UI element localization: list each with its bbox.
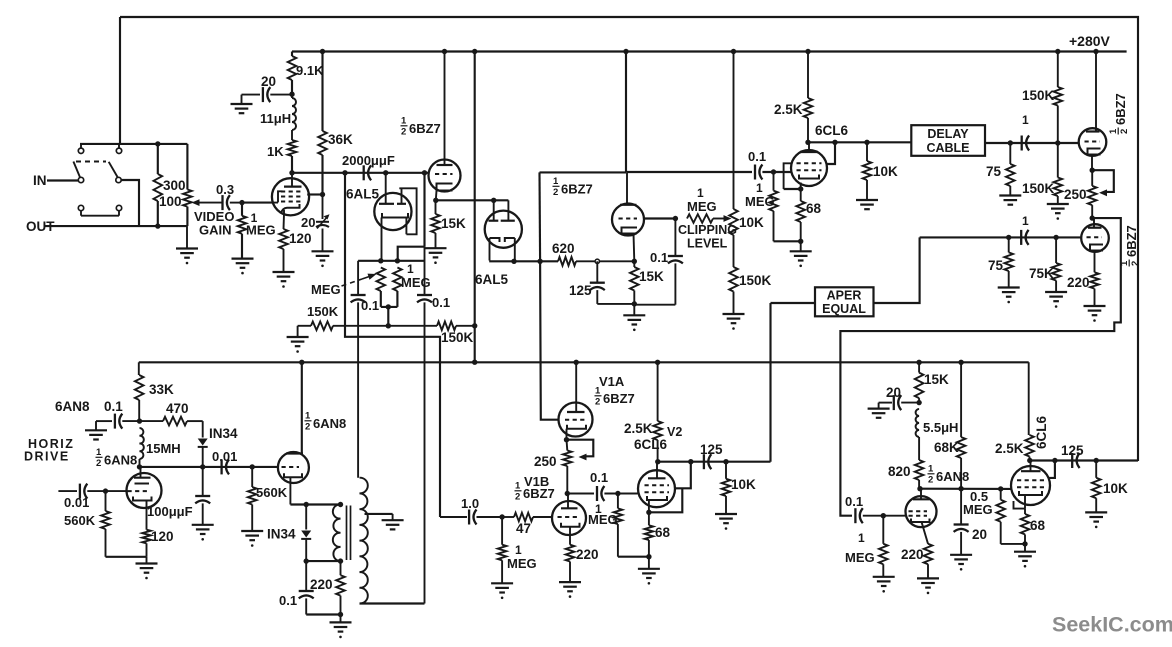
resistor 560K second — [241, 467, 263, 547]
switch S1 contacts — [78, 144, 121, 211]
node 6CL6 screen — [832, 140, 837, 145]
capacitor 0.1 fourth — [755, 165, 762, 180]
resistor 75K — [1045, 237, 1067, 307]
tube V 6BZ7b clipper — [612, 172, 644, 261]
resistor 300 — [154, 144, 163, 226]
svg-text:6CL6: 6CL6 — [815, 123, 849, 138]
resistor 0.5 MEG — [996, 489, 1025, 544]
svg-text:470: 470 — [166, 401, 189, 416]
capacitor 0.1 third — [634, 219, 683, 305]
svg-text:2.5K: 2.5K — [774, 102, 803, 117]
svg-text:2: 2 — [553, 187, 558, 198]
svg-text:6BZ7: 6BZ7 — [1113, 93, 1128, 125]
wire aper right — [874, 237, 920, 303]
node rail junction — [731, 49, 736, 54]
node 47 left — [499, 514, 504, 519]
tube V 6AN8 third — [906, 489, 937, 544]
node 6CL6b screen — [1052, 458, 1057, 463]
wire clipper grid — [644, 217, 675, 219]
svg-text:0.01: 0.01 — [64, 495, 89, 510]
node 6BZ7a cathode — [433, 198, 438, 203]
wire 6BZ7a cathode out — [436, 199, 509, 201]
diode 1N34 first — [198, 421, 208, 467]
wire v1a grid feed2 — [540, 261, 559, 419]
svg-text:0.1: 0.1 — [361, 298, 379, 313]
wire V2 screen — [675, 462, 691, 489]
wire 6AL5 right route — [398, 173, 425, 261]
wire rail drop 626 — [625, 52, 627, 173]
node rail junction — [1055, 49, 1060, 54]
node 20 tap — [916, 400, 921, 405]
wire top feedback line — [120, 17, 1138, 461]
node diode junction — [200, 464, 205, 469]
svg-text:6AN8: 6AN8 — [104, 453, 137, 468]
svg-text:250: 250 — [1064, 187, 1087, 202]
svg-text:15MH: 15MH — [146, 441, 181, 456]
resistor 1 MEG V2 — [614, 494, 623, 557]
node 6CL6 plate — [805, 140, 810, 145]
node rail junction — [805, 49, 810, 54]
svg-text:1: 1 — [1108, 128, 1119, 134]
wire +280V supply rail — [292, 50, 1127, 52]
svg-text:SeekIC.com: SeekIC.com — [1052, 613, 1172, 637]
wire grid tube1 — [307, 193, 322, 195]
svg-text:MEG: MEG — [745, 194, 775, 209]
resistor 220 xfmr — [336, 561, 345, 614]
node 75b tap — [1006, 235, 1011, 240]
potentiometer 250 V1A — [563, 440, 572, 494]
svg-text:MEG: MEG — [845, 550, 875, 565]
node xfmr gnd — [338, 612, 343, 617]
svg-text:2000μμF: 2000μμF — [342, 153, 395, 168]
wire cath tie — [784, 188, 801, 190]
svg-text:15K: 15K — [924, 372, 949, 387]
resistor 1 MEG second — [393, 268, 402, 292]
ground V2 cath — [638, 557, 660, 585]
resistor 120 second — [142, 530, 151, 557]
resistor 10K V2 — [715, 462, 737, 530]
svg-text:5.5μH: 5.5μH — [923, 420, 958, 435]
pot 250 V1A wiper — [567, 440, 594, 461]
capacitor 0.1 horiz — [85, 414, 139, 440]
svg-text:10K: 10K — [1103, 481, 1128, 496]
node 68K bottom — [958, 486, 963, 491]
resistor 9.1K — [288, 52, 297, 95]
svg-text:75: 75 — [988, 258, 1004, 273]
svg-text:APER: APER — [827, 289, 862, 303]
node rail junction — [320, 49, 325, 54]
svg-text:1: 1 — [756, 181, 763, 195]
node 150K mid tap — [1055, 140, 1060, 145]
svg-text:10K: 10K — [739, 215, 764, 230]
svg-text:2: 2 — [1130, 261, 1141, 266]
wire clip to cap — [627, 171, 752, 173]
tube V 6AN8 first — [127, 467, 162, 530]
ground 1 MEG input — [232, 259, 254, 275]
svg-text:V1A: V1A — [599, 374, 625, 389]
resistor 120 tube1 — [273, 214, 295, 288]
node 6AL5 plate2 — [422, 170, 427, 175]
node 6AN8 grid node — [137, 464, 142, 469]
svg-text:2: 2 — [401, 127, 406, 138]
node V1B plate — [565, 491, 570, 496]
resistor MEG sixth — [873, 516, 895, 593]
node 9.1K junction — [289, 92, 294, 97]
svg-text:68K: 68K — [934, 440, 959, 455]
diode 1N34 second — [301, 505, 311, 562]
box DELAY CABLE — [911, 125, 985, 156]
svg-text:LEVEL: LEVEL — [687, 237, 728, 251]
svg-text:6AL5: 6AL5 — [475, 272, 509, 287]
capacitor 125 first — [590, 261, 635, 304]
svg-text:MEG: MEG — [311, 282, 341, 297]
node rail junction — [1093, 49, 1098, 54]
svg-text:300: 300 — [163, 178, 186, 193]
svg-text:68: 68 — [1030, 518, 1046, 533]
node 6BZ7d plate — [1090, 215, 1095, 220]
capacitor 100uuF — [192, 467, 214, 541]
resistor 1 MEG input — [238, 203, 247, 259]
resistor 1 MEG V1B — [491, 517, 513, 599]
svg-text:1: 1 — [407, 262, 414, 276]
resistor 10K first — [856, 142, 878, 209]
svg-text:10K: 10K — [731, 477, 756, 492]
node 6AL5b plate — [491, 198, 496, 203]
wire 6CL6b out — [1030, 459, 1138, 461]
resistor 220 second — [917, 522, 939, 594]
tube V 6AL5 second — [485, 200, 522, 260]
node 150K bus1 — [386, 323, 391, 328]
capacitor 1 lower — [1021, 230, 1028, 245]
node switch top — [155, 141, 160, 146]
resistor 75 second — [998, 237, 1020, 303]
node 2000 left — [342, 170, 347, 175]
svg-text:0.1: 0.1 — [104, 399, 123, 414]
resistor 150K gnd-a — [287, 322, 437, 353]
wire cath to xfmr — [290, 503, 340, 505]
node 10K4 tap — [723, 459, 728, 464]
node 6CL6 grid — [771, 169, 776, 174]
svg-text:33K: 33K — [149, 382, 174, 397]
capacitor 20 screen — [231, 87, 293, 113]
wire meg to 68 — [774, 240, 801, 242]
svg-text:2.5K: 2.5K — [995, 441, 1024, 456]
wire aper left — [771, 302, 816, 304]
resistor 15K second — [630, 261, 639, 304]
node 15K bottom — [632, 301, 637, 306]
svg-text:15K: 15K — [639, 269, 664, 284]
svg-text:0.1: 0.1 — [650, 250, 668, 265]
capacitor 0.1 V2 — [567, 486, 638, 501]
svg-text:6AN8: 6AN8 — [55, 399, 90, 414]
svg-text:2: 2 — [305, 422, 310, 433]
node diode2 bot — [304, 558, 309, 563]
node xfmr pri top — [338, 502, 343, 507]
ground 68 first — [790, 241, 812, 267]
wire 6CL6 screen — [827, 142, 835, 164]
node 620 left — [511, 259, 516, 264]
capacitor 0.01 b — [222, 459, 229, 474]
capacitor 0.3 — [223, 195, 243, 210]
node V2 screen — [688, 459, 693, 464]
node rail junction — [442, 49, 447, 54]
svg-text:75K: 75K — [1029, 266, 1054, 281]
pot 250 wiper — [1092, 170, 1114, 196]
svg-text:GAIN: GAIN — [199, 223, 232, 238]
svg-text:0.1: 0.1 — [590, 470, 608, 485]
node rail junction — [472, 49, 477, 54]
tube V 6AN8 second — [278, 452, 309, 505]
wire cap to grid — [762, 171, 791, 173]
svg-text:68: 68 — [806, 201, 822, 216]
node 125 tap — [595, 259, 599, 263]
svg-text:560K: 560K — [256, 485, 288, 500]
resistor 10K third — [1085, 461, 1107, 529]
svg-text:75: 75 — [986, 164, 1002, 179]
svg-text:6AN8: 6AN8 — [313, 416, 346, 431]
resistor 15K first — [425, 200, 447, 264]
resistor 150K clip — [723, 267, 745, 330]
resistor 470 — [140, 417, 203, 426]
capacitor 20 third — [868, 395, 920, 418]
resistor 75 first — [999, 143, 1021, 205]
resistor 150K upper — [1054, 52, 1063, 144]
svg-text:100μμF: 100μμF — [147, 504, 193, 519]
svg-text:1: 1 — [515, 481, 521, 492]
svg-text:2: 2 — [1119, 129, 1130, 134]
node bus 15K3 — [916, 360, 921, 365]
node 6AN8b2 plate — [917, 486, 922, 491]
svg-text:V2: V2 — [667, 425, 682, 439]
node meg6 top — [881, 513, 886, 518]
svg-text:120: 120 — [289, 231, 312, 246]
resistor 1K — [288, 140, 297, 173]
wire cathode bus 620 — [489, 260, 558, 262]
wire IN lead — [47, 179, 78, 181]
svg-text:11μH: 11μH — [260, 111, 291, 126]
node V2 grid — [615, 491, 620, 496]
node bus 68K — [958, 360, 963, 365]
tube V V2 6CL6 — [638, 462, 675, 513]
svg-text:IN34: IN34 — [267, 527, 296, 542]
svg-text:68: 68 — [655, 525, 671, 540]
svg-text:220: 220 — [310, 577, 333, 592]
svg-text:36K: 36K — [328, 132, 353, 147]
capacitor 0.1 second — [417, 247, 432, 604]
trimmer 20 tube1 — [312, 195, 334, 268]
wire 6CL6b screen — [1049, 461, 1055, 478]
resistor 220 V1B — [559, 545, 581, 598]
node meg pot top — [378, 258, 383, 263]
resistor 36K — [318, 52, 327, 195]
svg-text:150K: 150K — [1022, 181, 1055, 196]
svg-text:620: 620 — [552, 241, 575, 256]
resistor 47 — [502, 513, 552, 522]
svg-text:150K: 150K — [441, 330, 474, 345]
node horiz node — [137, 418, 142, 423]
svg-text:DELAY: DELAY — [927, 127, 969, 141]
potentiometer 100 — [183, 144, 192, 226]
wire meg bottoms — [381, 291, 398, 307]
node vdrop 540 — [537, 259, 542, 264]
wire clipper plate wire — [540, 171, 627, 173]
svg-text:1: 1 — [96, 447, 102, 458]
svg-text:+280V: +280V — [1069, 33, 1111, 49]
ground xfmr — [330, 615, 352, 639]
wire aper grid bus — [920, 236, 1082, 238]
svg-text:1: 1 — [515, 543, 522, 557]
svg-text:MEG: MEG — [687, 199, 717, 214]
wire grid bus horiz — [140, 466, 279, 468]
svg-text:6BZ7: 6BZ7 — [561, 182, 593, 197]
label half 6BZ7 rot1 — [1108, 93, 1130, 134]
svg-text:560K: 560K — [64, 513, 96, 528]
tube V V1A — [559, 362, 593, 439]
resistor 68K — [957, 362, 966, 488]
svg-text:20: 20 — [261, 74, 276, 89]
svg-text:1K: 1K — [267, 144, 284, 159]
node out wire — [155, 223, 160, 228]
ground switch — [176, 226, 198, 264]
transformer T secondary — [360, 478, 368, 604]
potentiometer MEG video — [377, 268, 386, 292]
svg-text:125: 125 — [700, 442, 723, 457]
svg-text:1: 1 — [697, 186, 704, 200]
wire xfmr gnd bus — [306, 613, 340, 615]
tube V 6AL5 first — [374, 173, 416, 261]
svg-text:EQUAL: EQUAL — [822, 302, 866, 316]
tube V tube1 6BZ7 video amp — [272, 173, 309, 216]
capacitor 20 fourth — [950, 489, 972, 571]
svg-text:220: 220 — [901, 547, 924, 562]
svg-text:6AL5: 6AL5 — [346, 187, 380, 202]
svg-text:20: 20 — [301, 215, 315, 230]
wire V2 out — [658, 461, 771, 463]
node 6CL6 cathode — [798, 186, 803, 191]
box APER EQUAL — [815, 287, 874, 316]
svg-text:0.01: 0.01 — [212, 449, 237, 464]
node 05meg top — [998, 486, 1003, 491]
node 150K bus2 — [472, 323, 477, 328]
resistor 820 — [915, 437, 924, 489]
resistor 68 second — [1021, 509, 1030, 544]
switch lower jumper — [81, 211, 119, 216]
svg-text:100: 100 — [159, 194, 182, 209]
wire meg to bus — [387, 307, 389, 326]
resistor 150K b — [437, 322, 475, 331]
wire megv2 to 68 — [618, 556, 649, 558]
svg-text:250: 250 — [534, 454, 557, 469]
svg-text:2.5K: 2.5K — [624, 421, 653, 436]
wire switch top — [80, 143, 187, 145]
node V2 plate — [655, 459, 660, 464]
svg-text:0.1: 0.1 — [432, 295, 450, 310]
svg-text:1: 1 — [305, 411, 311, 422]
resistor 68 V2 — [645, 512, 654, 556]
node 1meg top — [395, 258, 400, 263]
wire OUT lead — [44, 225, 187, 227]
svg-text:1: 1 — [1022, 113, 1029, 127]
ground 6AN8 cath — [136, 557, 158, 580]
node 68 bottom — [798, 239, 803, 244]
resistor 150K lower — [1047, 143, 1069, 220]
node 75K tap — [1053, 235, 1058, 240]
node video gain — [239, 200, 244, 205]
svg-text:9.1K: 9.1K — [296, 63, 324, 78]
svg-text:6BZ7: 6BZ7 — [523, 486, 555, 501]
svg-text:150K: 150K — [739, 273, 772, 288]
wire 6CL6 plate out — [808, 141, 911, 143]
pot 100 wiper arrow — [192, 199, 222, 206]
svg-text:1.0: 1.0 — [461, 496, 479, 511]
svg-text:150K: 150K — [307, 304, 339, 319]
pot MEG arrow — [342, 274, 377, 286]
wire meg box top — [358, 260, 424, 262]
potentiometer 10K clip — [729, 52, 738, 268]
svg-text:6CL6: 6CL6 — [634, 437, 668, 452]
svg-text:15K: 15K — [441, 216, 466, 231]
svg-text:0.3: 0.3 — [216, 182, 234, 197]
inductor 15MH — [140, 428, 144, 467]
node 250 top — [1090, 168, 1095, 173]
capacitor 125 second — [704, 454, 711, 469]
inductor 11uH — [292, 94, 296, 140]
capacitor 125 third — [1072, 453, 1079, 468]
svg-text:6BZ7: 6BZ7 — [1124, 225, 1139, 257]
node V2 cathode — [646, 510, 651, 515]
node meg bottom — [386, 304, 391, 309]
svg-text:6BZ7: 6BZ7 — [603, 391, 635, 406]
tube V 6BZ7a cathode follower — [429, 52, 461, 201]
svg-text:0.1: 0.1 — [279, 593, 297, 608]
wire rail drop 475 — [474, 52, 476, 363]
svg-text:0.1: 0.1 — [748, 149, 766, 164]
wire feedback right — [840, 218, 1120, 516]
svg-text:MEG: MEG — [401, 275, 431, 290]
wire input drop — [119, 17, 121, 144]
wire 6AN8b plate — [301, 362, 303, 453]
resistor 33K — [135, 362, 144, 421]
svg-text:2: 2 — [928, 475, 933, 486]
node bus v2 2.5K — [655, 360, 660, 365]
resistor 220 right — [1084, 272, 1106, 322]
svg-text:IN: IN — [33, 173, 47, 188]
wire aper to v2out — [769, 303, 771, 462]
svg-text:120: 120 — [151, 529, 174, 544]
svg-text:MEG: MEG — [507, 556, 537, 571]
wire v1a grid feed — [538, 172, 541, 261]
wire to V grid — [242, 202, 273, 204]
node 6AN8 grid in — [103, 488, 108, 493]
svg-text:0.1: 0.1 — [845, 494, 863, 509]
node 68 V2 bottom — [646, 554, 651, 559]
resistor 15K third — [915, 362, 924, 402]
wire jog 2000 to V1B — [345, 173, 440, 517]
node xfmr pri bot — [338, 558, 343, 563]
node bus 6AN8b plate — [299, 360, 304, 365]
svg-text:CLIPPING: CLIPPING — [678, 223, 737, 237]
node plate peaking — [289, 170, 294, 175]
wire delay out — [985, 142, 1079, 144]
svg-text:20: 20 — [972, 527, 987, 542]
ground 6CL6b cath — [1014, 544, 1036, 568]
ground 15K second — [623, 304, 645, 331]
node 10K3 tap — [1094, 458, 1099, 463]
capacitor 0.1 first — [351, 261, 366, 478]
tube V 6CL6 second — [1011, 461, 1050, 509]
node 6AL5 plate1 — [383, 170, 388, 175]
svg-text:6AN8: 6AN8 — [936, 469, 969, 484]
